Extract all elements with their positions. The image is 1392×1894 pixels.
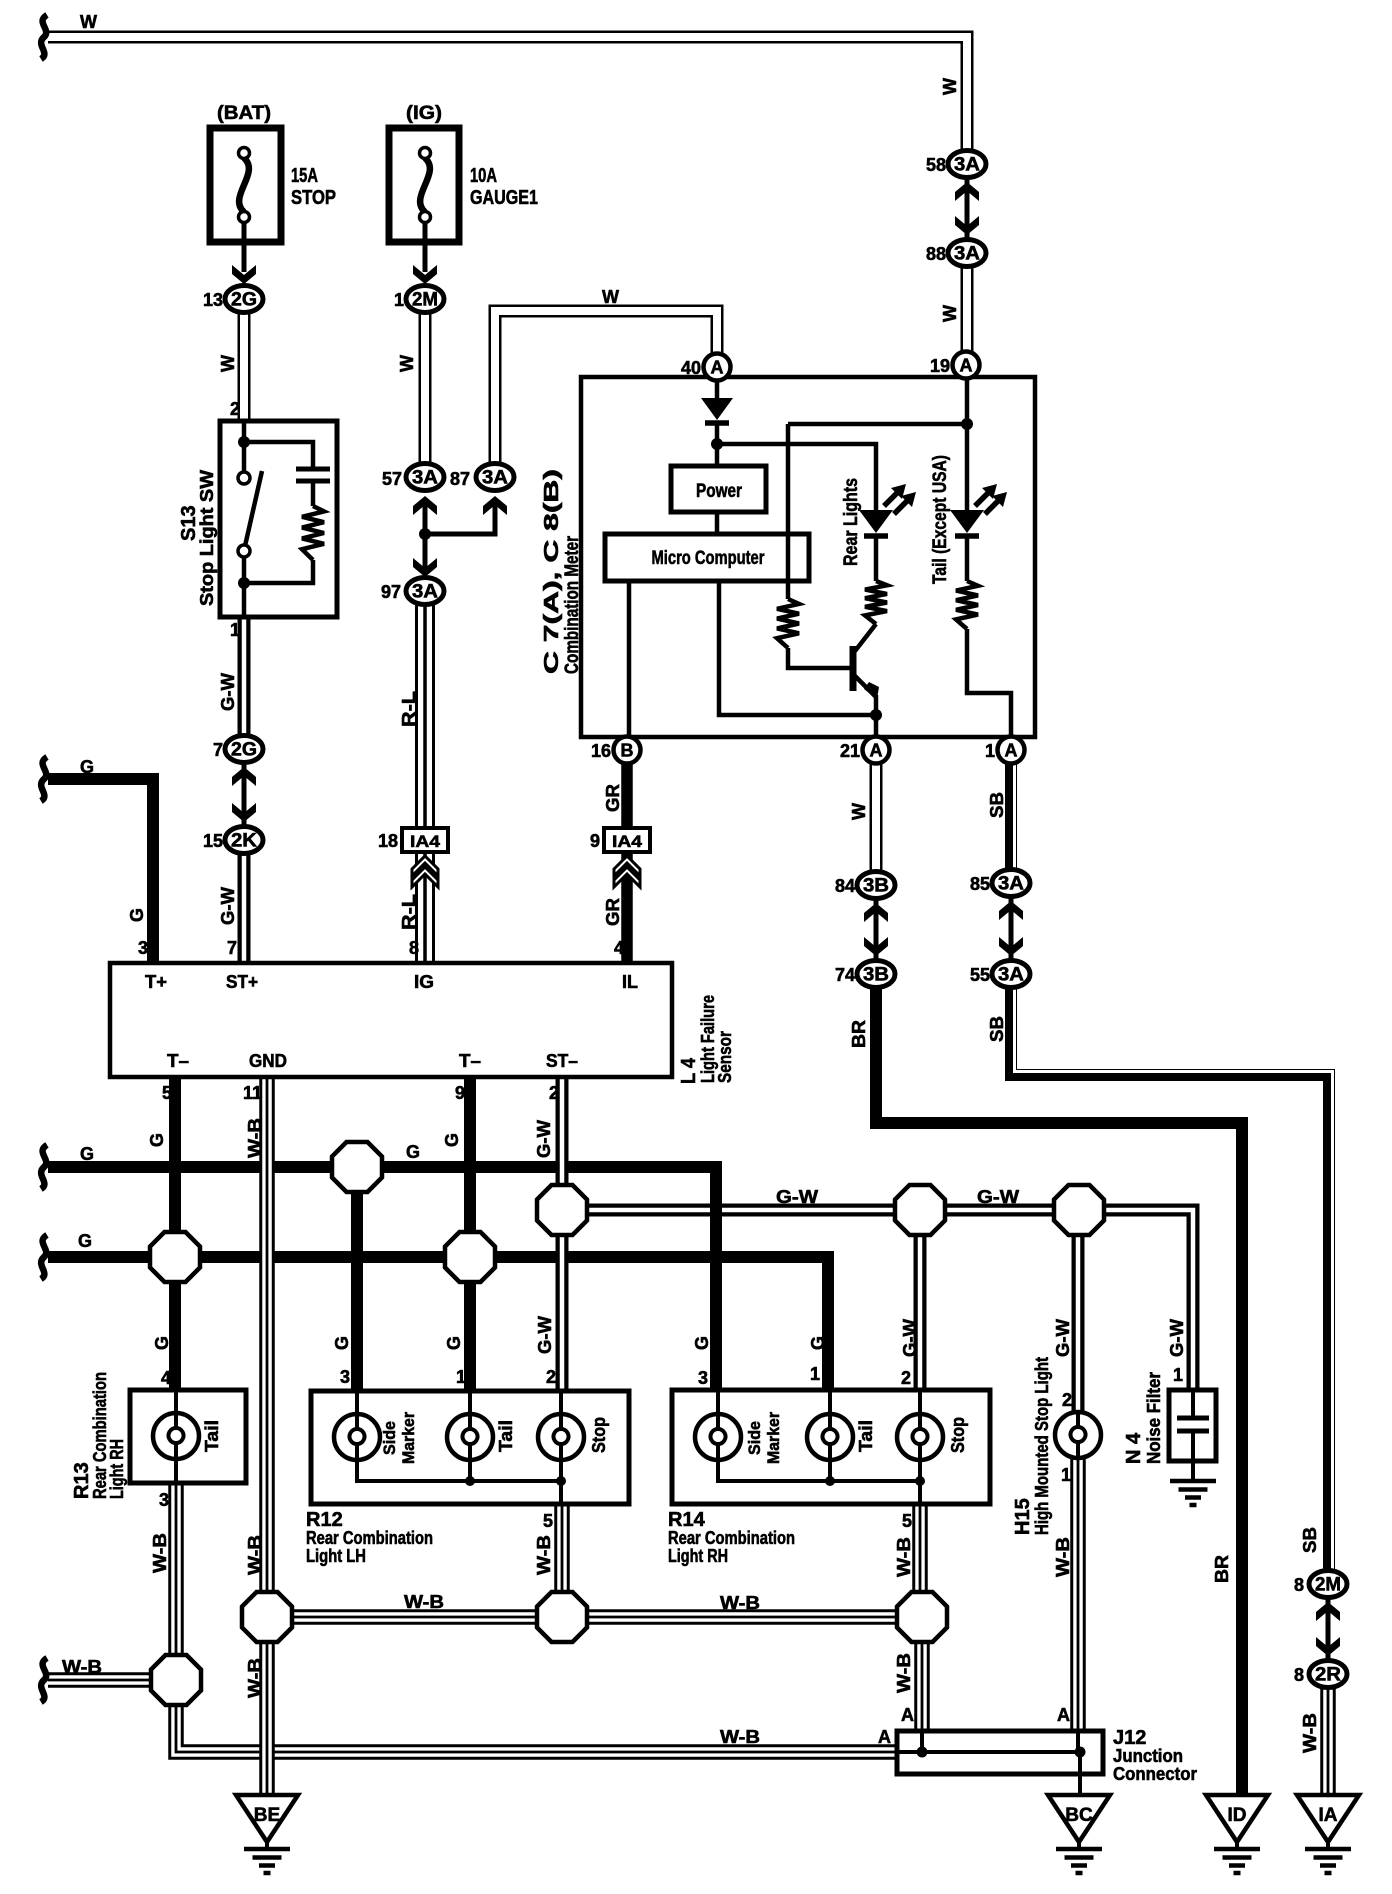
svg-text:GAUGE1: GAUGE1 bbox=[470, 187, 538, 209]
svg-text:1: 1 bbox=[1061, 1465, 1071, 1485]
svg-text:W-B: W-B bbox=[245, 1658, 265, 1698]
svg-text:G: G bbox=[444, 1336, 464, 1350]
svg-text:A: A bbox=[870, 741, 883, 761]
svg-text:BR: BR bbox=[1212, 1555, 1232, 1583]
svg-text:3: 3 bbox=[159, 1490, 169, 1510]
svg-text:2: 2 bbox=[1062, 1390, 1072, 1410]
svg-text:BR: BR bbox=[849, 1020, 869, 1048]
svg-text:SB: SB bbox=[1300, 1527, 1320, 1553]
svg-text:GR: GR bbox=[603, 898, 623, 926]
svg-text:8: 8 bbox=[409, 938, 419, 958]
svg-text:A: A bbox=[960, 356, 973, 376]
svg-text:1: 1 bbox=[810, 1364, 820, 1384]
svg-text:G-W: G-W bbox=[977, 1187, 1019, 1207]
svg-text:A: A bbox=[711, 358, 724, 378]
svg-text:Rear Combination: Rear Combination bbox=[668, 1528, 795, 1548]
svg-text:Tail: Tail bbox=[496, 1420, 516, 1452]
svg-text:15A: 15A bbox=[291, 165, 318, 187]
svg-text:97: 97 bbox=[381, 582, 401, 602]
svg-text:W-B: W-B bbox=[534, 1535, 554, 1575]
svg-text:Connector: Connector bbox=[1113, 1764, 1197, 1784]
svg-text:G-W: G-W bbox=[534, 1120, 554, 1158]
svg-text:G: G bbox=[808, 1336, 828, 1350]
svg-text:3A: 3A bbox=[954, 244, 980, 265]
svg-text:Marker: Marker bbox=[399, 1412, 418, 1464]
svg-text:G: G bbox=[692, 1336, 712, 1350]
svg-text:1: 1 bbox=[1173, 1365, 1183, 1385]
svg-text:8: 8 bbox=[1294, 1665, 1304, 1685]
svg-text:Marker: Marker bbox=[764, 1412, 783, 1464]
svg-text:W: W bbox=[849, 803, 869, 820]
svg-text:21: 21 bbox=[840, 741, 860, 761]
svg-text:Light LH: Light LH bbox=[306, 1546, 366, 1566]
svg-text:N 4: N 4 bbox=[1123, 1432, 1145, 1464]
svg-text:2G: 2G bbox=[231, 740, 257, 761]
svg-text:84: 84 bbox=[835, 876, 855, 896]
svg-text:G: G bbox=[78, 1231, 92, 1251]
svg-text:G: G bbox=[80, 757, 94, 777]
svg-text:87: 87 bbox=[450, 469, 470, 489]
svg-text:3A: 3A bbox=[954, 155, 980, 176]
svg-text:Light RH: Light RH bbox=[668, 1546, 728, 1566]
svg-text:G: G bbox=[80, 1144, 94, 1164]
svg-text:3A: 3A bbox=[412, 468, 438, 489]
svg-text:Combination Meter: Combination Meter bbox=[562, 536, 583, 674]
svg-text:IG: IG bbox=[414, 972, 434, 992]
svg-text:2K: 2K bbox=[231, 831, 257, 852]
svg-text:W-B: W-B bbox=[1053, 1537, 1073, 1577]
svg-text:H15: H15 bbox=[1012, 1498, 1034, 1535]
svg-text:Junction: Junction bbox=[1113, 1746, 1183, 1766]
svg-text:BC: BC bbox=[1065, 1805, 1093, 1826]
svg-text:IA4: IA4 bbox=[410, 832, 441, 851]
svg-text:Rear Lights: Rear Lights bbox=[841, 478, 862, 566]
svg-text:2M: 2M bbox=[1315, 1575, 1341, 1596]
svg-text:W: W bbox=[940, 78, 960, 95]
svg-text:Side: Side bbox=[745, 1421, 764, 1455]
svg-text:SB: SB bbox=[987, 792, 1007, 818]
svg-text:3A: 3A bbox=[998, 965, 1024, 986]
svg-text:G: G bbox=[147, 1133, 167, 1147]
svg-text:A: A bbox=[901, 1705, 914, 1725]
svg-text:Side: Side bbox=[380, 1421, 399, 1455]
svg-text:3A: 3A bbox=[412, 582, 438, 603]
svg-text:9: 9 bbox=[455, 1083, 465, 1103]
svg-text:5: 5 bbox=[162, 1083, 172, 1103]
svg-text:57: 57 bbox=[382, 469, 402, 489]
svg-text:58: 58 bbox=[926, 155, 946, 175]
svg-text:Stop: Stop bbox=[589, 1417, 609, 1453]
svg-text:3: 3 bbox=[138, 938, 148, 958]
svg-text:G-W: G-W bbox=[1053, 1319, 1073, 1357]
svg-text:T–: T– bbox=[459, 1051, 481, 1071]
svg-text:W: W bbox=[218, 355, 238, 372]
svg-text:1: 1 bbox=[985, 741, 995, 761]
svg-text:W-B: W-B bbox=[894, 1653, 914, 1693]
svg-text:74: 74 bbox=[835, 965, 855, 985]
svg-text:Tail (Except USA): Tail (Except USA) bbox=[930, 455, 951, 584]
svg-text:Tail: Tail bbox=[202, 1420, 222, 1452]
svg-text:Stop: Stop bbox=[948, 1417, 968, 1453]
svg-text:L 4: L 4 bbox=[678, 1057, 700, 1084]
svg-text:10A: 10A bbox=[470, 165, 497, 187]
svg-text:BE: BE bbox=[254, 1805, 280, 1826]
svg-text:15: 15 bbox=[203, 831, 223, 851]
svg-text:W-B: W-B bbox=[894, 1537, 914, 1577]
svg-text:40: 40 bbox=[681, 358, 701, 378]
svg-text:Micro Computer: Micro Computer bbox=[652, 548, 765, 569]
svg-text:4: 4 bbox=[614, 938, 624, 958]
svg-text:A: A bbox=[1005, 741, 1018, 761]
svg-text:ST–: ST– bbox=[546, 1051, 578, 1071]
svg-text:W: W bbox=[602, 287, 619, 307]
svg-text:B: B bbox=[621, 741, 634, 761]
svg-text:(BAT): (BAT) bbox=[217, 103, 271, 124]
svg-text:85: 85 bbox=[970, 874, 990, 894]
svg-text:Stop Light SW: Stop Light SW bbox=[197, 470, 217, 606]
svg-text:5: 5 bbox=[902, 1511, 912, 1531]
svg-text:9: 9 bbox=[590, 831, 600, 851]
svg-text:5: 5 bbox=[543, 1511, 553, 1531]
svg-text:16: 16 bbox=[591, 741, 611, 761]
svg-text:W: W bbox=[940, 305, 960, 322]
svg-text:(IG): (IG) bbox=[406, 103, 442, 124]
svg-text:W-B: W-B bbox=[404, 1592, 444, 1612]
svg-text:IA: IA bbox=[1319, 1805, 1338, 1826]
svg-text:1: 1 bbox=[456, 1367, 466, 1387]
svg-text:W-B: W-B bbox=[245, 1118, 265, 1158]
svg-text:2M: 2M bbox=[412, 290, 438, 311]
svg-text:ST+: ST+ bbox=[226, 972, 258, 992]
svg-text:STOP: STOP bbox=[291, 187, 336, 209]
svg-text:W-B: W-B bbox=[720, 1727, 760, 1747]
svg-text:G-W: G-W bbox=[776, 1187, 818, 1207]
svg-text:Power: Power bbox=[696, 481, 742, 502]
svg-text:G-W: G-W bbox=[218, 673, 238, 711]
svg-text:G-W: G-W bbox=[1167, 1319, 1187, 1357]
svg-text:18: 18 bbox=[378, 831, 398, 851]
svg-text:Noise Filter: Noise Filter bbox=[1144, 1372, 1164, 1464]
svg-text:4: 4 bbox=[161, 1368, 171, 1388]
svg-text:2G: 2G bbox=[231, 290, 257, 311]
svg-text:G-W: G-W bbox=[535, 1316, 555, 1354]
svg-text:W: W bbox=[80, 12, 97, 32]
svg-text:R-L: R-L bbox=[399, 691, 419, 727]
svg-text:G: G bbox=[406, 1142, 420, 1162]
svg-text:G-W: G-W bbox=[218, 887, 238, 925]
svg-text:3B: 3B bbox=[863, 965, 889, 986]
svg-text:W-B: W-B bbox=[150, 1533, 170, 1573]
svg-text:W-B: W-B bbox=[720, 1593, 760, 1613]
svg-text:T+: T+ bbox=[145, 972, 167, 992]
svg-text:2: 2 bbox=[901, 1368, 911, 1388]
svg-text:7: 7 bbox=[213, 740, 223, 760]
svg-text:GND: GND bbox=[249, 1051, 287, 1071]
svg-text:3: 3 bbox=[340, 1367, 350, 1387]
svg-text:G-W: G-W bbox=[900, 1319, 920, 1357]
svg-text:2: 2 bbox=[230, 399, 240, 419]
svg-text:88: 88 bbox=[926, 244, 946, 264]
svg-text:G: G bbox=[127, 908, 147, 922]
svg-text:3A: 3A bbox=[998, 874, 1024, 895]
svg-text:8: 8 bbox=[1294, 1575, 1304, 1595]
svg-text:2R: 2R bbox=[1315, 1665, 1341, 1686]
svg-text:W-B: W-B bbox=[1300, 1713, 1320, 1753]
svg-text:A: A bbox=[1057, 1705, 1070, 1725]
svg-text:3: 3 bbox=[698, 1368, 708, 1388]
svg-text:13: 13 bbox=[203, 290, 223, 310]
svg-text:ID: ID bbox=[1228, 1805, 1247, 1826]
svg-text:W-B: W-B bbox=[62, 1657, 102, 1677]
svg-text:55: 55 bbox=[970, 965, 990, 985]
svg-text:Rear Combination: Rear Combination bbox=[306, 1528, 433, 1548]
svg-text:Sensor: Sensor bbox=[715, 1031, 735, 1083]
svg-text:C 7(A), C 8(B): C 7(A), C 8(B) bbox=[541, 469, 563, 674]
svg-text:Tail: Tail bbox=[856, 1420, 876, 1452]
svg-text:2: 2 bbox=[549, 1083, 559, 1103]
svg-text:High Mounted Stop Light: High Mounted Stop Light bbox=[1032, 1357, 1052, 1535]
svg-text:W: W bbox=[397, 355, 417, 372]
svg-text:G: G bbox=[152, 1336, 172, 1350]
svg-text:GR: GR bbox=[603, 784, 623, 812]
svg-text:IL: IL bbox=[622, 972, 638, 992]
svg-text:R-L: R-L bbox=[399, 894, 419, 930]
svg-text:3A: 3A bbox=[482, 468, 508, 489]
svg-text:W-B: W-B bbox=[245, 1535, 265, 1575]
svg-text:2: 2 bbox=[546, 1367, 556, 1387]
svg-text:1: 1 bbox=[394, 290, 404, 310]
svg-text:G: G bbox=[332, 1336, 352, 1350]
svg-text:G: G bbox=[442, 1133, 462, 1147]
svg-text:IA4: IA4 bbox=[612, 832, 643, 851]
svg-text:T–: T– bbox=[167, 1051, 189, 1071]
svg-text:A: A bbox=[878, 1727, 891, 1747]
svg-text:SB: SB bbox=[987, 1016, 1007, 1042]
svg-text:11: 11 bbox=[243, 1083, 262, 1103]
svg-text:7: 7 bbox=[227, 938, 237, 958]
svg-text:3B: 3B bbox=[863, 876, 889, 897]
svg-text:1: 1 bbox=[230, 620, 240, 640]
svg-text:19: 19 bbox=[930, 356, 950, 376]
svg-text:Light RH: Light RH bbox=[107, 1439, 127, 1499]
